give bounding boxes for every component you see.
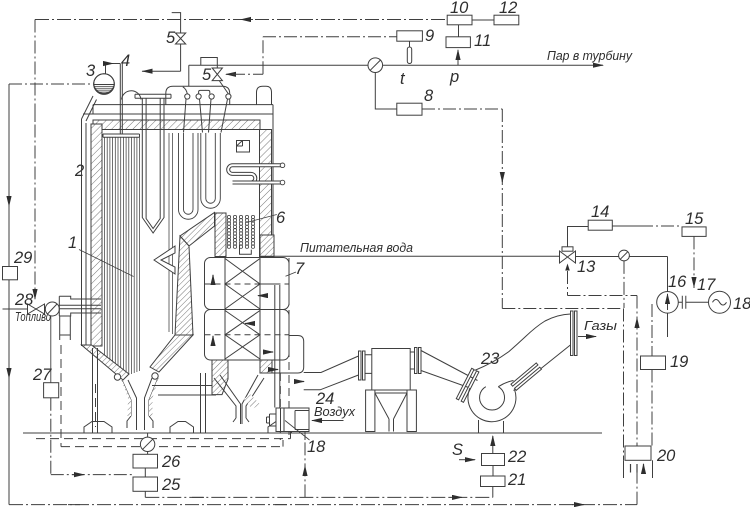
slag chute bbox=[122, 378, 158, 430]
air flow arrows in heater bbox=[213, 275, 273, 352]
svg-text:S: S bbox=[452, 441, 463, 459]
svg-text:28: 28 bbox=[14, 291, 34, 309]
central downcomer tube bbox=[142, 98, 164, 233]
pump suction stub bbox=[667, 313, 669, 337]
fan outlet duct bbox=[475, 314, 572, 391]
burner atomizer circle bbox=[45, 302, 59, 316]
air duct flow arrow bbox=[297, 381, 304, 383]
drum steam link with arrow bbox=[142, 70, 181, 72]
control line box 8 right bbox=[422, 109, 624, 309]
bus riser to box 20 bbox=[636, 471, 638, 505]
svg-text:3: 3 bbox=[86, 62, 96, 80]
svg-text:20: 20 bbox=[656, 447, 676, 465]
right top header bbox=[257, 86, 272, 105]
economizer lower wall stubs (hatched) bbox=[212, 360, 228, 395]
drum water-level line to left bbox=[9, 83, 94, 85]
drum 3 bbox=[94, 74, 115, 95]
link 10-11 bbox=[458, 25, 460, 37]
svg-text:t: t bbox=[400, 70, 406, 88]
gas duct economizer to cyclone bbox=[272, 356, 359, 390]
manifold fittings: 4 circles with stems bbox=[183, 81, 231, 133]
box 21 bbox=[481, 476, 506, 487]
svg-text:Воздух: Воздух bbox=[314, 404, 355, 419]
regulator box 27 bbox=[44, 383, 59, 398]
rotated outlet flange bbox=[511, 363, 541, 390]
svg-text:10: 10 bbox=[450, 0, 469, 17]
feed meter drop line bbox=[623, 261, 625, 308]
box 19 bbox=[641, 356, 666, 370]
floor line bbox=[23, 432, 602, 434]
gas analyzer box 20 bbox=[625, 446, 651, 460]
boiler right wall bbox=[260, 130, 272, 257]
boiler support columns bbox=[93, 348, 206, 433]
box 15 bbox=[682, 227, 706, 237]
svg-text:Пар в турбину: Пар в турбину bbox=[547, 48, 633, 63]
steam sampling branch to valve 5b bbox=[201, 58, 218, 69]
gas-turn nose (hatched) bbox=[180, 213, 215, 247]
svg-text:22: 22 bbox=[507, 448, 526, 466]
svg-text:5: 5 bbox=[166, 29, 176, 47]
left hopper slope (hatched) bbox=[82, 345, 130, 380]
fan 23 legs bbox=[479, 420, 504, 433]
box22-21 links bbox=[492, 466, 494, 498]
hopper hinge circles bbox=[114, 374, 120, 380]
level/fuel control line left column bbox=[8, 84, 10, 505]
line burner to box 27 bbox=[50, 316, 52, 383]
box 15 control drop bbox=[693, 236, 695, 288]
boiler bank tube grid 6 bbox=[227, 215, 254, 248]
box 8 bbox=[397, 103, 422, 115]
box 12 bbox=[494, 15, 519, 25]
valve 5b bbox=[212, 68, 222, 81]
link 14 to 15 bbox=[612, 225, 640, 227]
gas flow arrow bbox=[578, 336, 596, 338]
rear riser pipes bbox=[169, 133, 173, 334]
cyclone collector body bbox=[372, 349, 410, 391]
steam outlet riser bbox=[188, 65, 190, 86]
duct cyclone to fan inlet bbox=[421, 351, 478, 389]
svg-text:13: 13 bbox=[577, 258, 596, 276]
svg-text:6: 6 bbox=[276, 209, 286, 227]
svg-text:18: 18 bbox=[733, 295, 750, 313]
cyclone right flange bbox=[415, 348, 422, 374]
svg-text:2: 2 bbox=[74, 162, 84, 180]
wall coil with external taps bbox=[228, 163, 285, 185]
lower control bus bbox=[9, 504, 637, 506]
svg-text:27: 27 bbox=[32, 366, 52, 384]
box 10 bbox=[447, 15, 472, 25]
svg-text:25: 25 bbox=[161, 476, 181, 494]
link 10-12 bbox=[472, 19, 494, 21]
box 19 drop bbox=[651, 370, 653, 447]
furnace water-wall tubes bbox=[105, 137, 140, 374]
gas window chevron bbox=[154, 246, 175, 274]
control line valve 13 drop bbox=[568, 271, 638, 446]
leader for 7 bbox=[286, 272, 297, 276]
motor 18 bbox=[709, 291, 731, 313]
control line to box 19 bbox=[651, 304, 653, 356]
air heater 7 lower section bbox=[205, 310, 290, 361]
svg-text:8: 8 bbox=[424, 87, 434, 105]
dashed unit enclosure bbox=[36, 345, 291, 447]
svg-text:1: 1 bbox=[68, 234, 77, 252]
support feet bbox=[84, 422, 292, 434]
hot air duct down to blower bbox=[260, 284, 280, 408]
regulator box 26 bbox=[133, 454, 158, 468]
S input arrow bbox=[459, 459, 475, 461]
slag pump circle bbox=[140, 433, 154, 454]
svg-text:21: 21 bbox=[507, 471, 526, 489]
svg-text:19: 19 bbox=[670, 353, 688, 371]
valve 13 to box 14 bbox=[568, 227, 589, 247]
coupling 17 bbox=[678, 296, 708, 309]
cyclone inlet stub bbox=[365, 355, 372, 374]
boiler left wall bbox=[82, 96, 103, 346]
regulator box 29 bbox=[3, 267, 18, 280]
upper control bus bbox=[145, 496, 493, 498]
svg-text:12: 12 bbox=[499, 0, 517, 17]
svg-text:7: 7 bbox=[295, 260, 305, 278]
svg-text:15: 15 bbox=[685, 210, 704, 228]
forced draft fan 18 bbox=[267, 408, 310, 432]
burner assembly bbox=[59, 296, 101, 340]
economizer outlet header box bbox=[271, 336, 304, 374]
downcomer top flange bbox=[135, 94, 171, 98]
pipe arch left of downcomer bbox=[122, 91, 142, 100]
superheater U-tubes group 2 bbox=[201, 133, 221, 208]
line box 27 to box 25 bbox=[51, 398, 133, 475]
stack flange bbox=[571, 311, 578, 356]
feed valve 13 bbox=[560, 247, 576, 271]
feed water line bbox=[259, 256, 668, 291]
boiler casing roof bbox=[83, 105, 273, 256]
svg-text:11: 11 bbox=[474, 32, 491, 50]
svg-text:17: 17 bbox=[697, 276, 716, 294]
fuel valve 28 bbox=[28, 304, 45, 314]
svg-text:29: 29 bbox=[13, 249, 32, 267]
flow meter to box 8 bbox=[375, 73, 397, 110]
leader for fan 18 bbox=[285, 421, 310, 441]
svg-text:p: p bbox=[449, 68, 459, 86]
svg-text:4: 4 bbox=[121, 52, 130, 70]
cyclone left flange bbox=[359, 351, 366, 380]
svg-text:18: 18 bbox=[307, 438, 326, 456]
furnace tube header bbox=[103, 134, 140, 137]
fuel control line from top bus bbox=[34, 20, 36, 300]
leader for 6 bbox=[247, 215, 277, 223]
feed flow meter bbox=[619, 250, 630, 261]
valve 5a bbox=[176, 33, 186, 44]
safety valve 5a stem bbox=[172, 13, 181, 72]
fuel line bbox=[3, 308, 28, 310]
box 11 bbox=[446, 37, 470, 48]
air heater 7 upper section bbox=[205, 258, 290, 310]
flow meter on steam line bbox=[368, 58, 383, 73]
arrow into valve 5b bbox=[226, 73, 232, 75]
regulator box 25 bbox=[133, 477, 158, 491]
cyclone right stub bbox=[410, 352, 414, 369]
svg-text:26: 26 bbox=[161, 453, 181, 471]
top control bus bbox=[35, 19, 447, 21]
svg-text:9: 9 bbox=[425, 27, 434, 45]
sample arrows into box 20 bbox=[631, 464, 644, 473]
thermometer t bbox=[407, 41, 411, 63]
bottom duct boiler to economizer hopper bbox=[152, 386, 224, 396]
box 22 output arrow to fan bbox=[492, 436, 494, 454]
control line valve 5b to box 9 bbox=[232, 37, 397, 75]
stack legs under box 20 bbox=[624, 460, 653, 478]
steam line to turbine bbox=[189, 64, 603, 66]
riser to blower 18 bbox=[304, 432, 306, 497]
bank outlet bracket bbox=[240, 245, 252, 255]
soot blower flag box bbox=[237, 141, 250, 153]
box 14 bbox=[588, 220, 612, 230]
connector 26-25 and to bus bbox=[144, 468, 146, 497]
pressure tap p bbox=[457, 50, 459, 65]
top manifold dome bbox=[166, 86, 230, 105]
control riser to stack left bbox=[623, 309, 625, 461]
recirculation loop 4 over drum bbox=[106, 64, 123, 135]
economizer top wall stubs (hatched) bbox=[215, 213, 226, 257]
rear partition wall (hatched) bbox=[175, 236, 193, 335]
dashed bypass lines bbox=[280, 258, 289, 440]
cyclone support and funnel bbox=[366, 390, 417, 432]
induced draft fan 23 scroll bbox=[468, 381, 516, 422]
box 22 bbox=[482, 454, 505, 466]
leader for 1 bbox=[79, 250, 134, 277]
svg-text:16: 16 bbox=[668, 273, 687, 291]
economizer ash hopper bbox=[214, 375, 264, 424]
svg-text:Газы: Газы bbox=[584, 318, 617, 333]
rotated inlet flange bbox=[456, 368, 479, 402]
box 9 bbox=[397, 31, 423, 41]
svg-text:14: 14 bbox=[591, 203, 609, 221]
superheater U-tubes group 1 bbox=[179, 133, 199, 219]
rear hopper slope (hatched) bbox=[150, 335, 193, 372]
svg-text:5: 5 bbox=[202, 66, 212, 84]
feed pump 16 bbox=[657, 292, 679, 314]
air intake line bbox=[312, 420, 344, 422]
svg-text:Питательная вода: Питательная вода bbox=[300, 240, 413, 255]
